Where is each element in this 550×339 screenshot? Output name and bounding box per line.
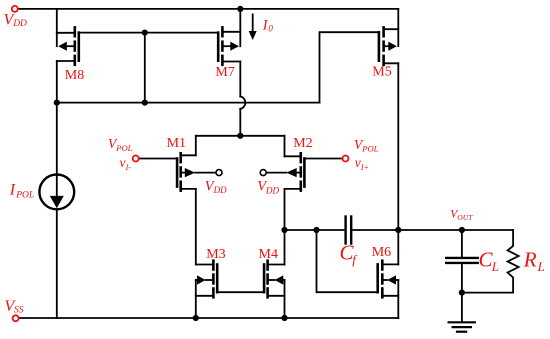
svg-text:DD: DD [265, 186, 279, 196]
junction dot mirror row left [54, 100, 60, 106]
wire VDD rail [18, 8, 398, 10]
svg-text:POL: POL [115, 143, 132, 153]
transistor M5 [379, 9, 398, 230]
transistor M8 [57, 9, 79, 103]
transistor M1 [139, 136, 216, 265]
junction dot mirror row at x=144.8 [142, 100, 148, 106]
svg-text:I-: I- [125, 163, 132, 172]
label vI+ [355, 155, 369, 172]
svg-text:M6: M6 [372, 245, 391, 260]
label VPOL right [354, 137, 379, 154]
wire tail row [196, 135, 285, 137]
transistor M6 [378, 230, 399, 318]
node VPOL input circle right [343, 156, 349, 162]
junction dot tail row [237, 133, 243, 139]
node VOUT [459, 227, 465, 233]
label VDD mid-left [205, 178, 227, 195]
svg-text:M2: M2 [293, 136, 312, 151]
label I0 [262, 18, 274, 34]
junction dot CL/RL bottom [459, 290, 465, 296]
transistor M4 [264, 230, 284, 318]
label VOUT [450, 209, 473, 222]
transistor M2 [266, 136, 342, 230]
junction dot M7 source at VDD rail [237, 6, 243, 12]
svg-text:M1: M1 [167, 136, 186, 151]
svg-text:M8: M8 [65, 68, 84, 83]
svg-text:0: 0 [268, 24, 273, 34]
annotation arrow I0 [252, 14, 254, 32]
svg-text:POL: POL [15, 191, 34, 201]
wire output row [285, 229, 344, 231]
junction dot gate line [142, 29, 148, 35]
label IPOL [9, 181, 34, 200]
junction dot M3 source at VSS rail [193, 315, 199, 321]
svg-text:SS: SS [14, 305, 24, 315]
capacitor Cf [346, 217, 352, 244]
wire M7 drain to tail row [239, 109, 241, 136]
ground [449, 293, 475, 332]
label VSS [5, 298, 24, 316]
label VPOL left [108, 136, 133, 153]
wire gate-line drop to mirror row [144, 33, 146, 103]
label VDD mid-right [257, 179, 279, 196]
svg-text:I+: I+ [360, 163, 369, 172]
wire mirror row [57, 102, 320, 104]
svg-text:f: f [352, 252, 358, 267]
svg-text:DD: DD [213, 185, 227, 195]
wire hop M7 drain over mirror row [240, 96, 245, 109]
svg-text:M7: M7 [215, 65, 234, 80]
svg-text:v: v [120, 155, 126, 170]
current source IPOL [39, 103, 74, 318]
wire M6 gate branch [317, 230, 378, 292]
node M1 body terminal VDD circle [216, 170, 222, 176]
capacitor CL [446, 230, 478, 293]
svg-text:OUT: OUT [457, 213, 473, 222]
svg-text:M3: M3 [206, 247, 225, 262]
wire VSS rail [19, 317, 398, 319]
svg-text:POL: POL [361, 143, 378, 153]
junction dot M2/M4 drains [281, 227, 287, 233]
node VDD terminal circle [12, 6, 18, 12]
label Cf [340, 241, 359, 268]
wire mirror row rise to M5 gate [320, 32, 379, 102]
svg-text:L: L [491, 259, 499, 274]
svg-text:L: L [537, 259, 545, 274]
svg-text:v: v [355, 155, 361, 170]
svg-text:M4: M4 [259, 247, 278, 262]
junction dot M5/M6 drains on output row [395, 227, 401, 233]
node M2 body terminal VDD circle [260, 170, 266, 176]
label vI- [120, 155, 132, 172]
svg-text:M5: M5 [372, 65, 391, 80]
node VSS terminal circle [13, 315, 19, 321]
wire M3-M4 gate rung [217, 291, 264, 293]
label CL [479, 247, 500, 274]
resistor RL [462, 230, 519, 293]
svg-text:I: I [9, 181, 16, 198]
junction dot M4 source at VSS rail [281, 315, 287, 321]
transistor M3 [196, 261, 217, 318]
wire gate line M8-M7 [79, 32, 218, 34]
junction dot M6 gate branch [313, 227, 319, 233]
label RL [523, 247, 545, 274]
svg-text:R: R [523, 247, 537, 271]
transistor M7 [218, 9, 240, 97]
label VDD top-left [4, 12, 28, 30]
node VPOL input circle left [133, 156, 139, 162]
svg-text:DD: DD [12, 19, 27, 29]
